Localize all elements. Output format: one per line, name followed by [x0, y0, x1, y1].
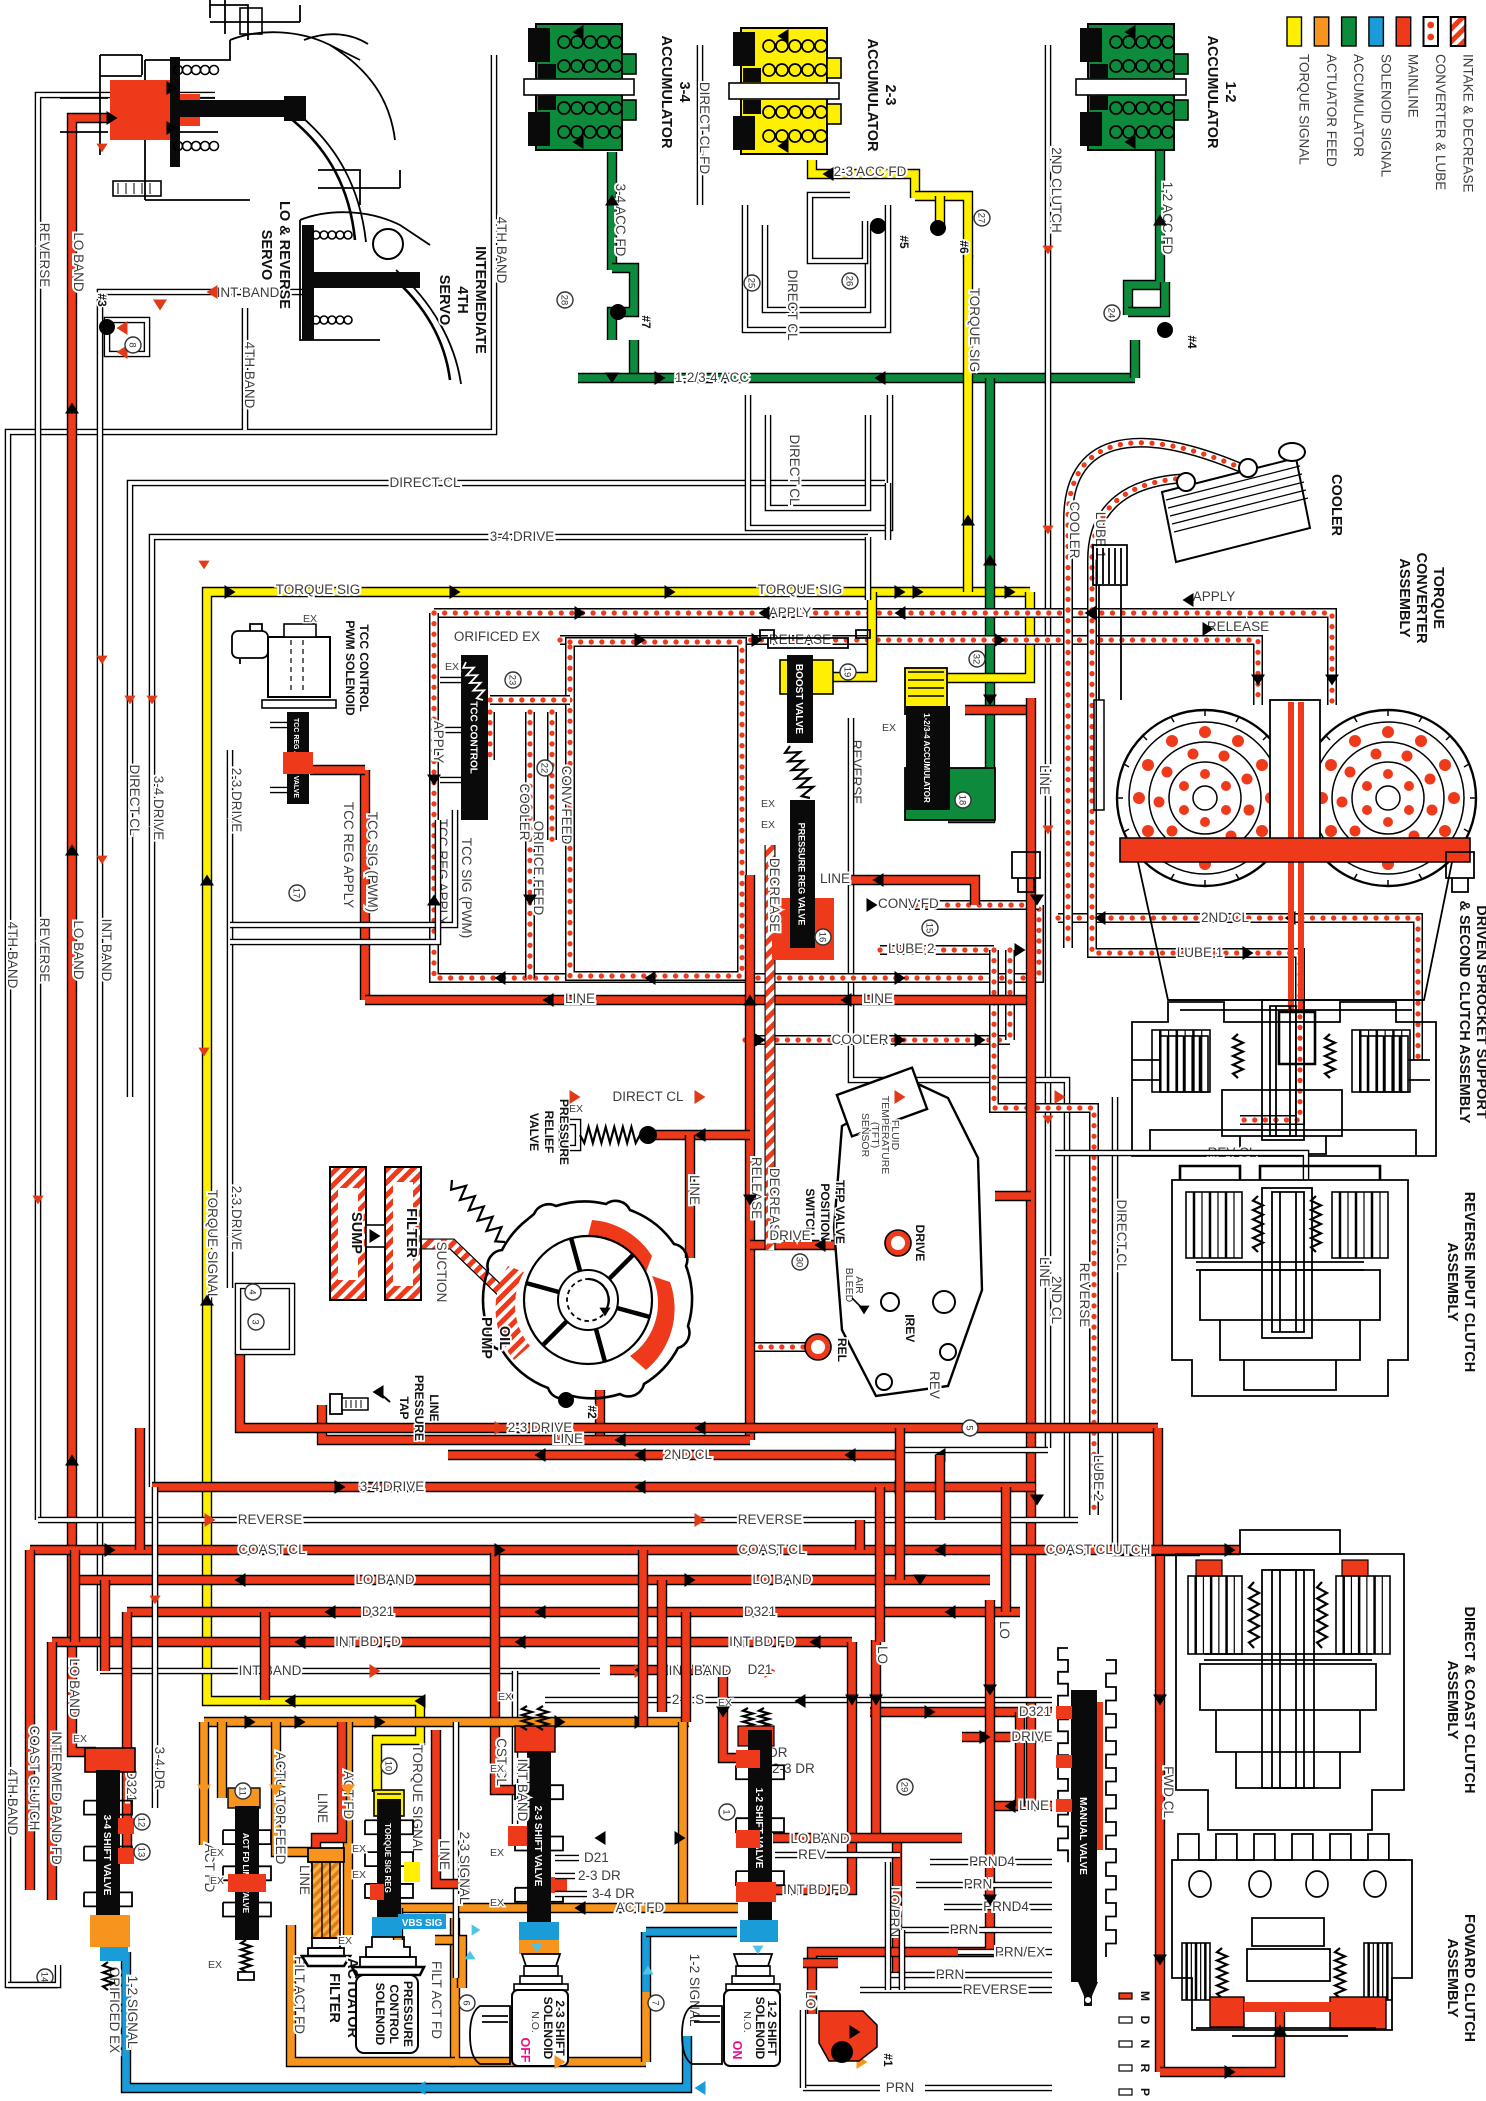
svg-text:REVERSE: REVERSE [37, 223, 52, 288]
direct & coast clutch assembly [1240, 1530, 1340, 1554]
svg-text:3-4 DRIVE: 3-4 DRIVE [360, 1479, 425, 1494]
svg-text:RELIEF: RELIEF [542, 1111, 556, 1154]
wire lube1 arc [1092, 478, 1190, 610]
svg-text:LO BAND: LO BAND [71, 232, 86, 292]
wire pump out [595, 1390, 605, 1440]
svg-text:ACCUMULATOR: ACCUMULATOR [1204, 35, 1220, 149]
wire act fd hook [393, 1908, 403, 1940]
svg-text:INT BAND: INT BAND [217, 285, 280, 300]
svg-text:INT BAND: INT BAND [515, 1759, 530, 1822]
wire ACT FD line [398, 1903, 738, 1913]
svg-text:ACCUMULATOR: ACCUMULATOR [658, 35, 674, 149]
svg-text:REVERSE: REVERSE [963, 1982, 1028, 1997]
svg-text:ORIFICE FEED: ORIFICE FEED [531, 821, 546, 916]
svg-text:TORQUE SIG: TORQUE SIG [758, 582, 843, 597]
svg-text:DRIVEN SPROCKET SUPPORT: DRIVEN SPROCKET SUPPORT [1473, 905, 1486, 1119]
wire DRIVE line [750, 1240, 889, 1250]
svg-text:MAINLINE: MAINLINE [1406, 54, 1421, 118]
wire REVERSE left rail [38, 95, 215, 1520]
wire LINE pump trunk [322, 1405, 750, 1440]
wire ladder i [855, 1520, 865, 1550]
svg-text:PRESSURE REG VALVE: PRESSURE REG VALVE [797, 823, 807, 926]
svg-text:LO: LO [997, 1621, 1012, 1639]
svg-text:INT BD FD: INT BD FD [729, 1634, 795, 1649]
svg-text:COAST CL: COAST CL [238, 1542, 306, 1557]
svg-text:2ND CL: 2ND CL [664, 1447, 713, 1462]
svg-text:LO BAND: LO BAND [355, 1572, 415, 1587]
svg-text:REV: REV [798, 1847, 826, 1862]
svg-text:2-3 SIGNAL: 2-3 SIGNAL [457, 1832, 472, 1905]
svg-text:PRN: PRN [886, 2080, 915, 2095]
svg-text:LINE: LINE [297, 1865, 312, 1895]
wire INT BD FD trunk [52, 1637, 852, 1647]
forward internals [1252, 1918, 1324, 1946]
svg-text:LINE: LINE [1019, 1798, 1049, 1813]
svg-text:2ND CL: 2ND CL [1049, 1276, 1064, 1325]
svg-text:3-4: 3-4 [676, 82, 692, 103]
reverse input internals [1196, 1262, 1364, 1270]
wire fwd clutch path [1160, 2008, 1280, 2072]
svg-text:1-2/3-4 ACCUMULATOR: 1-2/3-4 ACCUMULATOR [922, 713, 931, 803]
wire REL dotted [750, 1342, 809, 1352]
svg-text:REVERSE: REVERSE [37, 918, 52, 983]
svg-text:LO: LO [875, 1646, 890, 1664]
svg-text:RELEASE: RELEASE [1207, 619, 1269, 634]
svg-text:#5: #5 [897, 235, 911, 249]
svg-text:10: 10 [383, 1761, 394, 1772]
wire line stub boost [848, 880, 975, 905]
svg-text:#3: #3 [95, 293, 109, 307]
wire ladder e [638, 1550, 648, 1726]
wire 2ND CL trunk [448, 1450, 895, 1460]
svg-text:LUBE 1: LUBE 1 [1177, 945, 1224, 960]
wire D21 to 1-2 valve [723, 1670, 742, 1758]
wire blue to 1-2 valve [646, 1927, 737, 1937]
wire REVERSE vertical [851, 812, 1067, 1520]
svg-text:SOLENOID: SOLENOID [541, 1997, 555, 2060]
wire COOLER trunk [745, 1035, 1010, 1045]
svg-text:PUMP: PUMP [478, 1317, 494, 1359]
svg-text:FILT ACT FD: FILT ACT FD [429, 1961, 444, 2039]
#1 checkball [819, 2011, 877, 2061]
wire D321 trunk [127, 1607, 1020, 1617]
svg-text:LINE: LINE [863, 991, 893, 1006]
wire cooler branch [525, 712, 535, 978]
svg-text:3-4 DR: 3-4 DR [152, 1747, 167, 1790]
svg-text:18: 18 [957, 795, 968, 806]
svg-text:EX: EX [490, 1763, 504, 1775]
svg-text:COAST CLUTCH: COAST CLUTCH [27, 1726, 42, 1831]
svg-text:1: 1 [721, 1809, 732, 1814]
svg-text:2-3 DRIVE: 2-3 DRIVE [508, 1420, 573, 1435]
svg-text:DRIVE: DRIVE [769, 1228, 810, 1243]
1-2 shift valve [743, 1708, 753, 1730]
wire 3-4 DRIVE trunk [152, 1482, 1035, 1492]
driven sprocket internals [1160, 1036, 1208, 1092]
legend [1287, 17, 1302, 46]
svg-text:N: N [1138, 2040, 1152, 2049]
svg-text:PRN/EX: PRN/EX [995, 1944, 1045, 1959]
svg-text:INT BAND: INT BAND [99, 919, 114, 982]
svg-text:LO BAND: LO BAND [67, 1658, 82, 1718]
svg-text:APPLY: APPLY [431, 721, 446, 764]
wire DIRECT CL top [130, 483, 885, 1097]
sump [330, 1167, 366, 1300]
svg-text:2-3 DR: 2-3 DR [578, 1868, 621, 1883]
2-3 shift valve [515, 1726, 555, 1752]
svg-text:LO BAND: LO BAND [71, 920, 86, 980]
svg-text:DIRECT CL: DIRECT CL [389, 475, 461, 490]
svg-text:EX: EX [498, 1691, 512, 1703]
svg-text:LINE: LINE [427, 1394, 441, 1421]
filter [385, 1167, 421, 1300]
pressure relief valve [562, 1122, 578, 1148]
svg-text:24: 24 [1106, 308, 1117, 319]
svg-text:INT BAND: INT BAND [669, 1663, 732, 1678]
wire pcs out [435, 1940, 462, 1988]
svg-text:TORQUE: TORQUE [1430, 567, 1446, 629]
svg-text:REL: REL [835, 1338, 849, 1362]
boost valve [820, 592, 872, 677]
svg-text:SUCTION: SUCTION [434, 1242, 449, 1303]
svg-text:ASSEMBLY: ASSEMBLY [1396, 558, 1412, 638]
svg-text:N.O.: N.O. [529, 2011, 541, 2033]
wire TORQUE SIG trunk [207, 592, 1030, 1792]
svg-text:D321: D321 [124, 1770, 139, 1802]
svg-text:TAP: TAP [397, 1396, 411, 1419]
svg-text:TCC SIG (PWM): TCC SIG (PWM) [365, 812, 380, 913]
svg-text:R: R [1138, 2064, 1152, 2073]
svg-text:EX: EX [490, 1847, 504, 1859]
svg-text:APPLY: APPLY [1193, 589, 1236, 604]
svg-text:2-3 SHIFT VALVE: 2-3 SHIFT VALVE [532, 1806, 543, 1887]
svg-text:27: 27 [976, 213, 987, 224]
wire 2-3 SIGNAL [453, 1722, 460, 1978]
svg-text:ACT FD LIMIT VALVE: ACT FD LIMIT VALVE [241, 1833, 250, 1914]
svg-text:INT BD FD: INT BD FD [783, 1882, 849, 1897]
pressure control solenoid [366, 1937, 410, 1957]
wire filter bottom out [291, 1925, 455, 2062]
svg-text:COAST CL: COAST CL [738, 1542, 806, 1557]
svg-text:3-4 SHIFT VALVE: 3-4 SHIFT VALVE [101, 1815, 112, 1896]
svg-text:22: 22 [539, 763, 550, 774]
wire DIRECT CL vertical [1115, 1097, 1200, 1553]
svg-text:DIRECT CL: DIRECT CL [785, 269, 800, 341]
svg-text:ACCUMULATOR: ACCUMULATOR [1351, 54, 1366, 157]
svg-text:VALVE: VALVE [527, 1113, 541, 1151]
wire LO BAND red rail [72, 118, 145, 1752]
line pressure tap [330, 1394, 342, 1414]
wire 1-2 acc connect [1130, 340, 1140, 378]
svg-text:4TH BAND: 4TH BAND [5, 922, 20, 989]
torque converter assembly [1093, 545, 1127, 585]
svg-text:19: 19 [842, 667, 853, 678]
svg-text:1-2: 1-2 [1222, 82, 1238, 103]
wire tcc sig net a [230, 810, 455, 925]
svg-text:LINE: LINE [1037, 765, 1052, 795]
svg-text:12: 12 [136, 1817, 147, 1828]
wire 3-4 acc drop [629, 340, 639, 378]
svg-text:EX: EX [352, 1869, 366, 1881]
oil pump [483, 1201, 692, 1399]
wire LINE manual line [995, 1801, 1052, 1811]
svg-text:EX: EX [73, 1733, 87, 1745]
wire coast clutch drop [25, 1550, 35, 1890]
svg-text:EX: EX [445, 661, 459, 673]
svg-text:SOLENOID: SOLENOID [373, 1983, 387, 2046]
wire line riser [360, 770, 370, 1000]
wire 2-3 ACC FD [812, 160, 915, 198]
svg-text:23: 23 [507, 675, 518, 686]
svg-text:ORIFICED EX: ORIFICED EX [454, 629, 540, 644]
wire LINE right vertical [1026, 698, 1036, 1802]
svg-text:EX: EX [210, 1847, 224, 1859]
svg-text:28: 28 [559, 295, 570, 306]
svg-text:D321: D321 [362, 1604, 394, 1619]
svg-text:TORQUE SIG: TORQUE SIG [276, 582, 361, 597]
svg-text:3: 3 [250, 1319, 261, 1324]
svg-text:FILTER: FILTER [403, 1208, 419, 1258]
svg-text:CONVERTER: CONVERTER [1413, 552, 1429, 644]
svg-text:LO: LO [803, 1991, 818, 2009]
svg-text:4TH: 4TH [454, 286, 470, 313]
wire ladder k [935, 1455, 945, 1520]
wire 2ND CLUTCH vertical [1045, 45, 1052, 1448]
svg-text:3-4 DRIVE: 3-4 DRIVE [151, 776, 166, 841]
svg-text:2-3: 2-3 [882, 85, 898, 106]
wire line to switch [995, 1191, 1031, 1201]
wire 4th band servo drop [242, 308, 249, 430]
wire 1-2 acc loop [1128, 282, 1165, 312]
svg-text:TCC CONTROL: TCC CONTROL [357, 624, 371, 711]
wire orange riser 7 [641, 1992, 651, 2062]
svg-text:26: 26 [844, 276, 855, 287]
wire torque line right [436, 1730, 470, 1884]
wire apply-left + bottom dotted [434, 613, 1039, 978]
svg-text:ACT FD: ACT FD [341, 1771, 356, 1820]
wire coast into assembly [1160, 1545, 1240, 1555]
2-3 accumulator [741, 28, 827, 154]
wire line to pump [685, 1135, 695, 1258]
actuator filter [308, 1848, 344, 1862]
svg-text:1-2/3-4 ACC: 1-2/3-4 ACC [675, 370, 750, 385]
svg-text:PRN: PRN [964, 1877, 993, 1892]
svg-text:25: 25 [746, 278, 757, 289]
wire 2nd cl white part [895, 1447, 1048, 1454]
svg-text:SERVO: SERVO [258, 230, 274, 281]
wire yellow to accumulator [947, 592, 1030, 678]
wire FWD CL vertical [1155, 1556, 1165, 2072]
svg-text:& SECOND CLUTCH ASSEMBLY: & SECOND CLUTCH ASSEMBLY [1456, 901, 1472, 1124]
svg-text:OIL: OIL [496, 1326, 512, 1350]
svg-text:13: 13 [136, 1847, 147, 1858]
svg-text:1-2 SIGNAL: 1-2 SIGNAL [125, 1976, 140, 2049]
svg-text:EX: EX [303, 613, 317, 625]
svg-text:#1: #1 [881, 2053, 895, 2067]
1-2 accumulator [1088, 24, 1174, 150]
svg-text:#2: #2 [585, 1405, 599, 1419]
wire LUBE 2 [880, 945, 994, 955]
wire 2-3 DRIVE trunk [240, 1352, 1158, 1428]
svg-text:DIRECT CL: DIRECT CL [1114, 1199, 1129, 1271]
3-4 shift valve [85, 1748, 135, 1772]
wire LINE trunk mid [365, 995, 1031, 1005]
svg-text:4TH BAND: 4TH BAND [494, 217, 509, 284]
cooler [1162, 458, 1310, 562]
svg-text:2ND CL: 2ND CL [1201, 910, 1250, 925]
wire act fd mid drop [343, 1722, 353, 1935]
svg-text:COOLER: COOLER [1067, 501, 1082, 558]
wire 2-3 S line [545, 1697, 1052, 1704]
svg-text:EX: EX [761, 819, 775, 831]
svg-text:PRN: PRN [936, 1967, 965, 1982]
svg-text:DRIVE: DRIVE [1011, 1729, 1052, 1744]
svg-text:INTERMED BAND FD: INTERMED BAND FD [49, 1731, 64, 1865]
svg-text:RELEASE: RELEASE [749, 1157, 764, 1219]
svg-text:COAST CLUTCH: COAST CLUTCH [1046, 1542, 1151, 1557]
svg-text:FILTER: FILTER [326, 1973, 342, 2023]
wire CONV FD [905, 900, 1039, 910]
wire torque sig riser [963, 255, 973, 592]
wire int bd fd to valve [775, 1642, 852, 1890]
wire 2-3 DRIVE vertical [227, 750, 234, 1288]
wire RELEASE dotted [560, 640, 1258, 705]
svg-text:17: 17 [291, 888, 302, 899]
svg-text:15: 15 [924, 923, 935, 934]
wire int band to 2-3 valve [512, 1671, 519, 1824]
wire VBS SIG [398, 1917, 444, 1927]
wire 2-3 acc loop [915, 196, 968, 258]
svg-text:30: 30 [794, 1257, 805, 1268]
svg-text:EX: EX [208, 1959, 222, 1971]
svg-text:FOWARD CLUTCH: FOWARD CLUTCH [1461, 1914, 1477, 2042]
wire cooler up [1005, 950, 1015, 1040]
wire relief line [645, 1130, 750, 1140]
pressure reg valve [772, 898, 834, 960]
svg-text:REV: REV [903, 1318, 917, 1343]
svg-text:TORQUE SIG REG: TORQUE SIG REG [383, 1823, 392, 1893]
svg-text:LINE: LINE [565, 991, 595, 1006]
svg-text:4TH BAND: 4TH BAND [242, 342, 257, 409]
torque sig reg valve [374, 1790, 404, 1816]
wire LUBE 1 route [1092, 610, 1300, 1120]
svg-text:D: D [1138, 2016, 1152, 2025]
wire REVERSE trunk [38, 1517, 1078, 1524]
svg-text:REVERSE: REVERSE [1077, 1263, 1092, 1328]
svg-text:ASSEMBLY: ASSEMBLY [1444, 1660, 1460, 1740]
wire tcc feed b [485, 712, 495, 760]
svg-text:4: 4 [247, 1289, 258, 1294]
svg-text:LINE: LINE [687, 1175, 702, 1205]
svg-text:SERVO: SERVO [436, 275, 452, 326]
svg-text:3-4 DRIVE: 3-4 DRIVE [490, 529, 555, 544]
svg-text:PWM SOLENOID: PWM SOLENOID [343, 620, 357, 716]
svg-text:6: 6 [461, 2000, 472, 2005]
wire ladder h [875, 1487, 885, 1642]
svg-text:TFP VALVE: TFP VALVE [833, 1180, 847, 1244]
wire COAST CL trunk [30, 1545, 1160, 1555]
wire intermed band drop [47, 1642, 57, 1900]
svg-text:RELEASE: RELEASE [769, 632, 831, 647]
wire 3-4 DRIVE top [152, 537, 868, 1487]
svg-text:EX: EX [210, 1875, 224, 1887]
svg-text:DIRECT CL: DIRECT CL [127, 764, 142, 836]
wire DECREASE hatched [765, 845, 776, 1250]
svg-text:ASSEMBLY: ASSEMBLY [1444, 1938, 1460, 2018]
svg-text:COOLER: COOLER [1328, 474, 1344, 537]
svg-text:REVERSE: REVERSE [738, 1512, 803, 1527]
svg-text:ACT FD: ACT FD [616, 1900, 665, 1915]
svg-text:4TH BAND: 4TH BAND [5, 1769, 20, 1836]
svg-text:TORQUE SIGNAL: TORQUE SIGNAL [205, 1190, 220, 1301]
wire 2ND CL dotted [1058, 918, 1418, 1060]
intermediate 4th servo [318, 170, 400, 205]
svg-text:CONV FD: CONV FD [878, 896, 939, 911]
checkball #3 [107, 320, 147, 354]
direct cl white loops [745, 205, 888, 330]
svg-text:FILT ACT FD: FILT ACT FD [292, 1956, 307, 2034]
foward clutch assembly [1178, 1834, 1406, 1860]
tcc reg apply valve [287, 712, 309, 804]
svg-text:D321: D321 [744, 1604, 776, 1619]
svg-text:8: 8 [127, 342, 138, 347]
svg-text:3-4 ACC FD: 3-4 ACC FD [613, 184, 628, 257]
svg-text:REV: REV [927, 1371, 942, 1399]
svg-text:LINE: LINE [437, 1840, 452, 1870]
svg-text:TCC SIG (PWM): TCC SIG (PWM) [459, 838, 474, 939]
wire cooler drop [1063, 610, 1073, 948]
svg-text:COOLER: COOLER [517, 783, 532, 840]
wire line top stub [965, 705, 1031, 715]
1-2/3-4 accumulator center [905, 668, 947, 714]
wire accumulator green drop [948, 378, 990, 818]
tcc control valve [461, 655, 488, 820]
svg-text:SOLENOID: SOLENOID [753, 1997, 767, 2060]
wire ladder b [100, 1580, 110, 1671]
wire ladder f [657, 1580, 667, 1712]
svg-text:SENSOR: SENSOR [859, 1113, 871, 1158]
wire tcc reg line stub [310, 765, 365, 775]
wire 3-4 dr drop [152, 1487, 159, 1808]
wire D321 manual line [870, 1707, 1052, 1717]
svg-text:LINE: LINE [315, 1793, 330, 1823]
svg-text:N.O.: N.O. [741, 2011, 753, 2033]
svg-text:#7: #7 [639, 315, 653, 329]
svg-text:DIRECT & COAST CLUTCH: DIRECT & COAST CLUTCH [1461, 1607, 1477, 1794]
wire ladder d [260, 1612, 270, 1700]
svg-text:DIRECT CL: DIRECT CL [612, 1089, 684, 1104]
svg-text:D21: D21 [748, 1662, 773, 1677]
svg-text:ACCUMULATOR: ACCUMULATOR [864, 38, 880, 152]
wire 4TH BAND loop [8, 55, 494, 1985]
svg-text:COOLER: COOLER [831, 1032, 888, 1047]
svg-text:EX: EX [761, 798, 775, 810]
svg-text:7: 7 [650, 2000, 661, 2005]
svg-text:2ND CLUTCH: 2ND CLUTCH [1049, 147, 1064, 233]
svg-text:32: 32 [971, 654, 982, 665]
svg-text:ASSEMBLY: ASSEMBLY [1444, 1242, 1460, 1322]
svg-text:P: P [1138, 2088, 1152, 2096]
svg-text:ACTUATOR FEED: ACTUATOR FEED [1324, 54, 1339, 167]
svg-text:REVERSE: REVERSE [238, 1512, 303, 1527]
svg-text:LINE: LINE [820, 871, 850, 886]
svg-text:PRN: PRN [950, 1922, 979, 1937]
svg-text:2-3 ACC FD: 2-3 ACC FD [834, 164, 907, 179]
svg-text:TORQUE SIGNAL: TORQUE SIGNAL [410, 1745, 425, 1856]
svg-text:EX: EX [490, 1897, 504, 1909]
tcc pwm solenoid [268, 637, 330, 697]
svg-text:D321: D321 [1019, 1704, 1051, 1719]
